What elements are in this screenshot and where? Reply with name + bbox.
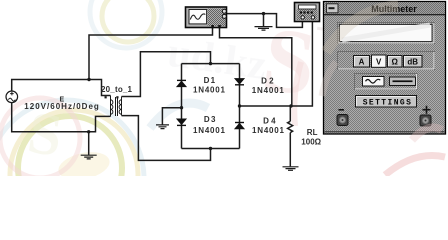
- bridge bottom rail: [182, 148, 240, 150]
- plus sign: [423, 106, 431, 114]
- waveform group frame: [355, 74, 418, 90]
- + output rail to multimeter: [240, 21, 313, 106]
- bridge top rail: [182, 63, 240, 65]
- svg-text:Ω: Ω: [391, 58, 398, 67]
- svg-text:D4: D4: [263, 117, 276, 126]
- wire secondary top to bridge top: [122, 52, 211, 97]
- SETTINGS button: [356, 96, 417, 108]
- RL bottom lead: [289, 133, 291, 167]
- scope right terminal wire: [227, 13, 264, 15]
- svg-text:1N4001: 1N4001: [193, 126, 226, 135]
- ground stem at scope: [263, 14, 265, 27]
- svg-text:1N4001: 1N4001: [252, 86, 285, 95]
- button ohm: [388, 56, 403, 68]
- minus sign: [339, 109, 345, 111]
- multimeter icon: [295, 3, 320, 22]
- svg-text:D2: D2: [261, 76, 274, 85]
- RL top lead: [289, 106, 291, 121]
- svg-text:V: V: [376, 58, 382, 67]
- junction node scope ground: [262, 12, 265, 15]
- junction node at E top / primary / scope A: [87, 78, 90, 81]
- readout frame: [338, 23, 435, 44]
- resistor RL zigzag: [288, 121, 293, 132]
- watermark underlay: [0, 0, 448, 176]
- oscilloscope icon: [186, 7, 227, 28]
- button dB: [404, 56, 423, 68]
- junction node bridge right midpoint: [238, 104, 241, 107]
- button AC (selected): [363, 77, 385, 87]
- svg-text:Multimeter: Multimeter: [371, 4, 417, 14]
- junction node bridge left midpoint: [180, 106, 183, 109]
- scope channel B wire: [220, 28, 292, 106]
- svg-text:SETTINGS: SETTINGS: [363, 98, 413, 107]
- panel bottom edge band: [325, 131, 445, 133]
- button V (selected): [372, 55, 387, 67]
- junction node at E bottom ground: [87, 130, 90, 133]
- readout white field: [340, 25, 433, 42]
- svg-text:dB: dB: [407, 58, 418, 67]
- ground symbol at RL: [283, 167, 299, 171]
- svg-text:1N4001: 1N4001: [193, 86, 226, 95]
- watermark overlay on panel: [322, 6, 442, 140]
- terminal socket minus: [337, 115, 348, 126]
- svg-text:120V/60Hz/0Deg: 120V/60Hz/0Deg: [24, 102, 99, 111]
- junction node RL top: [289, 104, 292, 107]
- svg-text:1N4001: 1N4001: [252, 126, 285, 135]
- button DC: [390, 77, 416, 86]
- system menu box: [327, 4, 339, 13]
- schematic text labels: [24, 76, 321, 147]
- wire E top loop: [12, 80, 111, 96]
- bridge left branch: [181, 64, 183, 149]
- ground symbol at scope: [255, 27, 273, 31]
- wire scope channel A tap: [89, 28, 213, 80]
- svg-text:20_to_1: 20_to_1: [101, 85, 133, 94]
- svg-text:D3: D3: [204, 115, 216, 124]
- diode D3: [177, 119, 186, 125]
- mode buttons group frame: [338, 52, 435, 70]
- svg-text:100Ω: 100Ω: [301, 137, 321, 146]
- junction node bridge bottom rail feed: [209, 147, 212, 150]
- AC source E: [6, 91, 18, 103]
- title bar: [324, 2, 445, 14]
- junction node bridge top rail feed: [209, 62, 212, 65]
- watermark streak on readout: [342, 25, 430, 40]
- ground symbol at E: [81, 155, 97, 159]
- terminal socket plus: [420, 115, 431, 126]
- diode D2: [235, 79, 244, 85]
- bridge right branch: [239, 64, 241, 149]
- wire left midpoint to ground: [162, 108, 181, 125]
- diode D1: [177, 80, 186, 86]
- wire to multimeter left pin: [264, 14, 303, 28]
- svg-text:A: A: [359, 58, 365, 67]
- ground symbol at bridge left midpoint: [156, 125, 169, 129]
- wire E bottom loop: [12, 102, 111, 131]
- circuit svg: [0, 0, 448, 176]
- transformer 20_to_1: [111, 96, 122, 117]
- svg-text:RL: RL: [307, 128, 318, 137]
- panel body: [324, 2, 446, 135]
- button A: [354, 56, 370, 68]
- ground stem at E junction: [88, 132, 90, 155]
- transformer phase dots: [105, 96, 119, 98]
- diode D4: [235, 123, 244, 129]
- svg-text:D1: D1: [204, 76, 216, 85]
- wire bottom rail to secondary bottom: [122, 116, 211, 161]
